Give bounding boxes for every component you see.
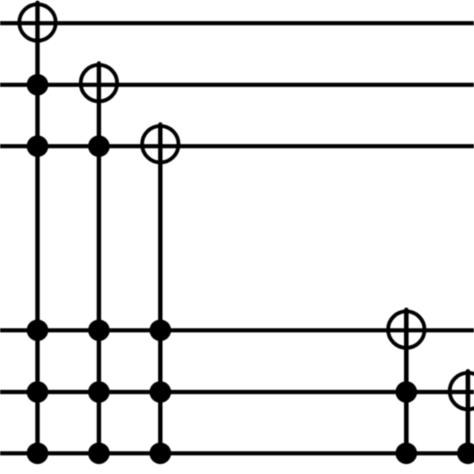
wire vertical connector column 3 [158,125,162,454]
wire q2 [0,83,474,87]
control dot column5 wire qn [457,443,474,465]
control dot column1 wire q3 [27,135,49,157]
control dot column2 wire qn-1 [88,381,110,403]
control dot column3 wire qn-1 [150,381,172,403]
cnot target X2 on wire q2 [81,65,117,101]
control dot column2 wire qn-2 [88,320,110,342]
control dot column2 wire qn [88,443,110,465]
control dot column1 wire qn-2 [27,320,49,342]
wire qn [0,451,474,455]
control dot column2 wire q3 [88,135,110,157]
control dot column1 wire qn [27,443,49,465]
control dot column4 wire qn [396,443,418,465]
wire q3 [0,144,474,148]
control dot column1 wire q2 [27,74,49,96]
cnot target X4 on wire qn-2 [388,311,424,347]
cnot target X1 on wire q1 [19,4,55,40]
wire vertical connector column 4 [404,310,409,453]
control dot column1 wire qn-1 [27,381,49,403]
cnot target X5 on wire qn-1 (clipped at right edge) [450,373,474,409]
wire vertical connector column 5 [466,371,471,453]
wire vertical connector column 2 [97,63,101,453]
control dot column4 wire qn-1 [396,381,418,403]
wire q1 [0,21,474,25]
cnot target X3 on wire q3 [142,126,178,162]
wire qn-2 [0,328,474,332]
wire qn-1 [0,390,474,394]
control dot column3 wire qn [150,443,172,465]
control dot column3 wire qn-2 [150,320,172,342]
wire vertical connector column 1 [35,3,39,454]
